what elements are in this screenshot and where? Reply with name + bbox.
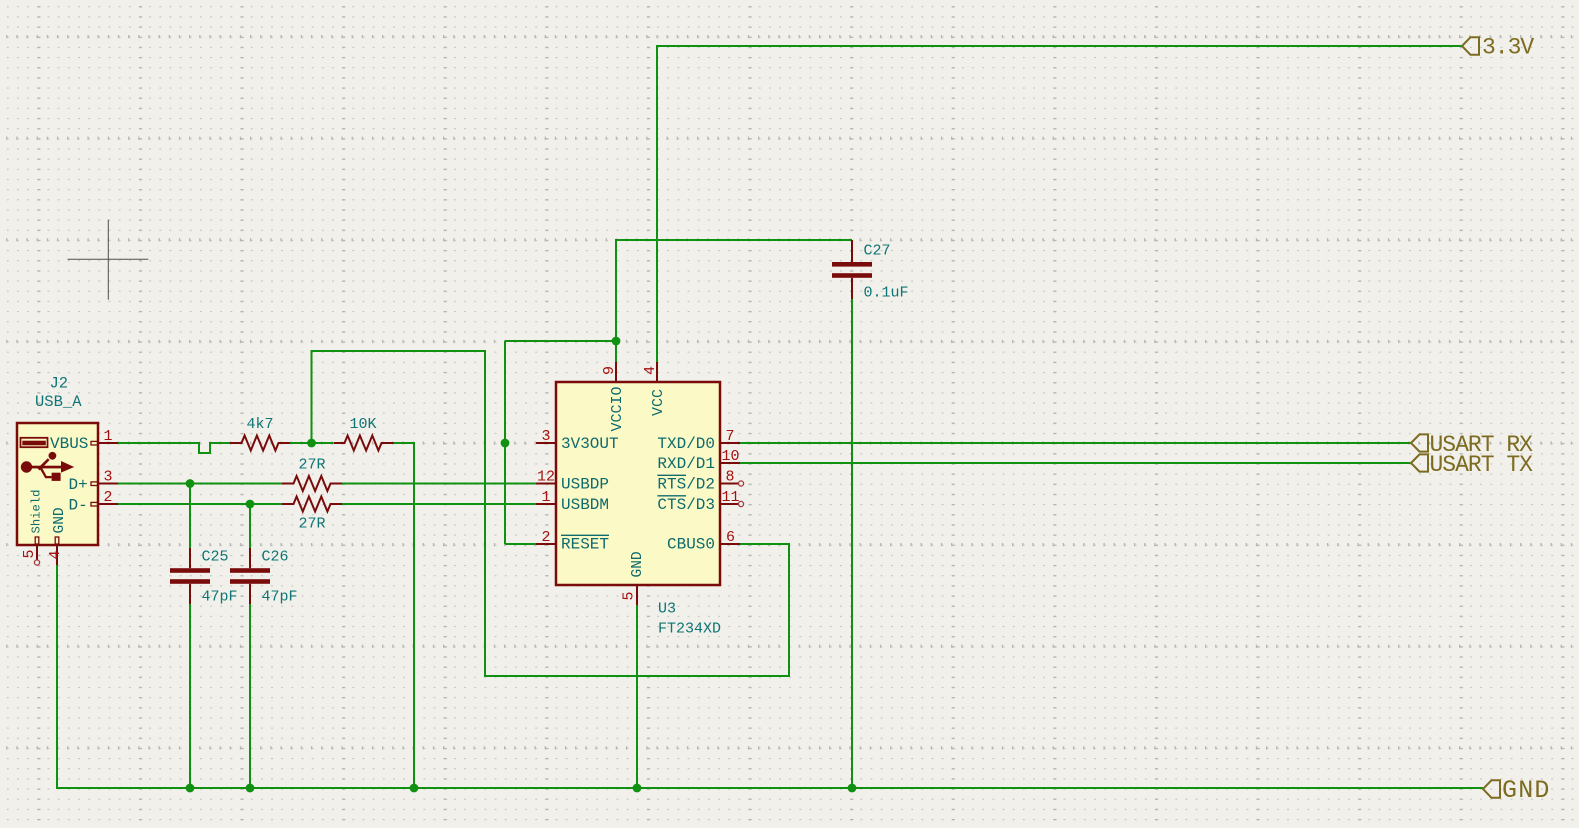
J2 USB trident icon [21, 452, 74, 481]
svg-text:47pF: 47pF [202, 589, 238, 606]
svg-text:2: 2 [103, 489, 112, 506]
svg-text:VCCIO: VCCIO [609, 386, 626, 431]
svg-text:USART TX: USART TX [1430, 452, 1534, 478]
junction GND rail / C27 [848, 784, 857, 793]
svg-text:D-: D- [69, 497, 88, 515]
wire RESET riser vertical [504, 341, 506, 544]
junction node A (4k7/10K/CBUS0) [307, 439, 316, 448]
U3 pin 6 CBUS0 stub [720, 543, 740, 545]
wire VBUS with crossing notch [118, 443, 230, 453]
svg-text:3: 3 [103, 469, 112, 486]
sheet origin crosshair [68, 220, 149, 300]
junction D- / C26 [246, 500, 255, 509]
svg-text:1: 1 [541, 489, 550, 506]
capacitor C25 [170, 548, 210, 604]
svg-text:USBDM: USBDM [561, 496, 609, 514]
wire TXD/D0 to USART RX [740, 442, 1411, 444]
svg-text:Shield: Shield [30, 490, 44, 534]
U3 pin name RTS/D2 with overline on RTS [657, 475, 715, 493]
U3 pin 11 CTS/D3 stub with no-connect circle [720, 501, 744, 506]
IC U3 FT234XD body [556, 382, 720, 585]
wire VCCIO junction left to RESET riser [505, 340, 616, 342]
wire C25 bottom to GND rail [189, 604, 191, 788]
U3 pin name CTS/D3 with overline on CTS [657, 496, 715, 514]
svg-text:VBUS: VBUS [50, 435, 88, 453]
U3 pin 9 VCCIO stub [615, 362, 617, 382]
svg-text:USB_A: USB_A [35, 393, 82, 411]
wire node A to CBUS0 loop [312, 351, 790, 676]
J2 USB receptacle icon [21, 438, 48, 447]
svg-text:3.3V: 3.3V [1482, 35, 1534, 61]
wire VCCIO pin to junction [615, 341, 617, 362]
svg-text:3: 3 [541, 428, 550, 445]
svg-text:10: 10 [721, 448, 739, 465]
svg-text:4k7: 4k7 [247, 416, 274, 433]
svg-text:3V3OUT: 3V3OUT [561, 435, 619, 453]
svg-text:C25: C25 [202, 549, 229, 566]
svg-text:USBDP: USBDP [561, 476, 609, 494]
wire D- from J2 to 27R [118, 503, 282, 505]
svg-text:2: 2 [541, 529, 550, 546]
connector J2 body [17, 423, 98, 545]
wire C25 top [189, 484, 191, 549]
svg-text:12: 12 [537, 469, 555, 486]
svg-text:RESET: RESET [561, 536, 609, 554]
wire C26 bottom to GND rail [249, 604, 251, 788]
wire VCCIO junction up to C27 [616, 240, 852, 341]
resistor R 4k7 [230, 436, 290, 451]
global label 3.3V [1462, 35, 1534, 61]
resistor R 27R (D-) [282, 497, 342, 512]
junction VCCIO node [612, 337, 621, 346]
J2 pin 2 D- stub [91, 502, 118, 506]
svg-text:GND: GND [1502, 776, 1551, 805]
U3 pin name RESET with overline [561, 535, 609, 553]
U3 pin 2 RESET stub [536, 543, 556, 545]
resistor R 27R (D+) [282, 476, 342, 491]
wire 27R to USBDM [342, 503, 536, 505]
J2 pin 4 GND stub [55, 537, 59, 565]
svg-text:CBUS0: CBUS0 [667, 536, 715, 554]
U3 pin 12 USBDP stub [536, 483, 556, 485]
svg-text:0.1uF: 0.1uF [864, 285, 909, 302]
svg-text:FT234XD: FT234XD [658, 621, 721, 638]
resistor R 10K [334, 436, 394, 451]
svg-text:CTS/D3: CTS/D3 [657, 496, 715, 514]
U3 pin 3 3V3OUT stub [536, 442, 556, 444]
wire 10K to GND rail [394, 443, 415, 788]
capacitor C27 [832, 240, 872, 299]
wire to RESET pin [505, 543, 536, 545]
wire RXD/D1 to USART TX [740, 462, 1411, 464]
wire C27 bottom to GND rail [851, 299, 853, 788]
wire 4k7 to node A [290, 442, 333, 444]
svg-text:TXD/D0: TXD/D0 [657, 435, 715, 453]
wire U3 GND pin to rail [636, 605, 638, 788]
svg-text:GND: GND [630, 551, 646, 577]
wire C26 top [249, 504, 251, 548]
U3 pin 1 USBDM stub [536, 503, 556, 505]
svg-text:7: 7 [725, 428, 734, 445]
svg-text:RXD/D1: RXD/D1 [657, 455, 715, 473]
junction GND rail / 10K [410, 784, 419, 793]
svg-text:C26: C26 [262, 549, 289, 566]
svg-text:VCC: VCC [650, 389, 667, 416]
wire GND rail [57, 565, 1483, 788]
svg-text:8: 8 [725, 469, 734, 486]
capacitor C26 [230, 548, 270, 604]
J2 pin 1 VBUS stub [91, 441, 118, 445]
U3 pin 7 TXD/D0 stub [720, 442, 740, 444]
junction 3V3OUT node [501, 439, 510, 448]
svg-text:C27: C27 [864, 243, 891, 260]
svg-text:J2: J2 [50, 375, 69, 393]
svg-text:10K: 10K [350, 416, 377, 433]
U3 pin 10 RXD/D1 stub [720, 462, 740, 464]
svg-text:27R: 27R [299, 516, 326, 533]
svg-text:GND: GND [52, 507, 68, 533]
J2 pin 5 Shield stub with no-connect circle [34, 537, 39, 565]
junction GND rail / C25 [186, 784, 195, 793]
junction GND rail / U3 GND [633, 784, 642, 793]
svg-text:27R: 27R [299, 457, 326, 474]
wire 27R to USBDP [342, 483, 536, 485]
svg-text:1: 1 [103, 428, 112, 445]
svg-text:5: 5 [21, 549, 38, 558]
global label USART RX [1411, 432, 1533, 458]
junction GND rail / C26 [246, 784, 255, 793]
svg-text:5: 5 [621, 591, 638, 600]
svg-text:U3: U3 [658, 601, 676, 618]
wire D+ from J2 to 27R [118, 483, 282, 485]
J2 pin 3 D+ stub [91, 482, 118, 486]
svg-text:11: 11 [721, 489, 739, 506]
svg-text:6: 6 [726, 529, 735, 546]
global label GND [1483, 776, 1551, 805]
global label USART TX [1411, 452, 1533, 478]
svg-text:RTS/D2: RTS/D2 [657, 476, 715, 494]
svg-text:D+: D+ [69, 476, 88, 494]
U3 pin 5 GND stub [636, 585, 638, 605]
svg-text:47pF: 47pF [262, 589, 298, 606]
junction D+ / C25 [186, 479, 195, 488]
svg-text:4: 4 [47, 550, 64, 559]
U3 pin 8 RTS/D2 stub with no-connect circle [720, 481, 744, 486]
svg-text:9: 9 [601, 366, 618, 375]
svg-text:4: 4 [642, 366, 659, 375]
wire VCC to 3.3V rail [657, 46, 1462, 362]
U3 pin 4 VCC stub [656, 362, 658, 382]
